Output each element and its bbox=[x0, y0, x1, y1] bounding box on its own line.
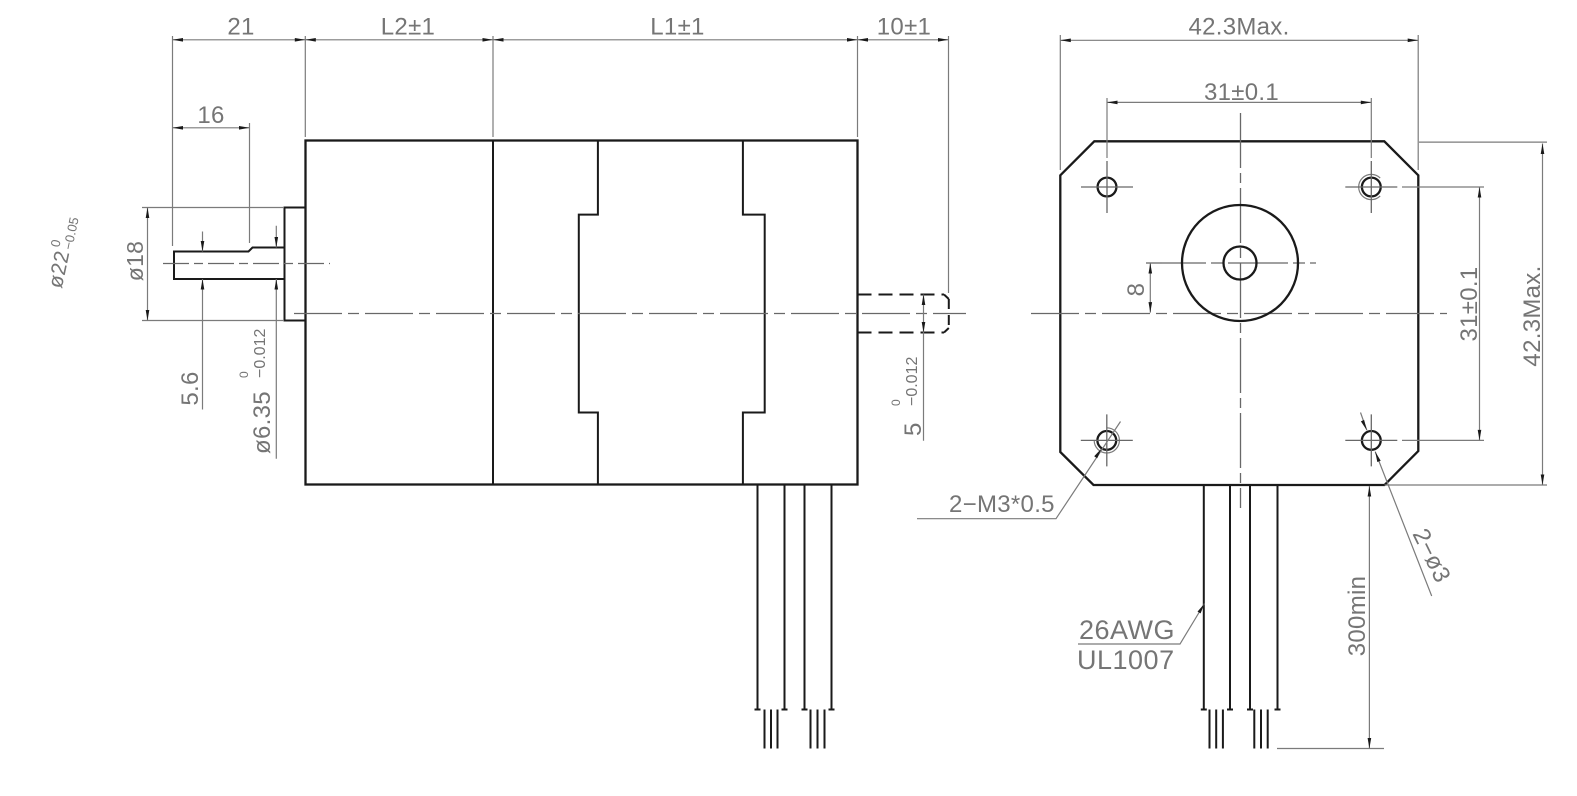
shaft centerline bbox=[163, 263, 330, 265]
svg-text:L1±1: L1±1 bbox=[650, 14, 704, 41]
svg-text:−0.012: −0.012 bbox=[904, 357, 921, 406]
vertical centerline (front view) bbox=[1240, 113, 1242, 508]
front pilot boss bbox=[285, 208, 306, 321]
extension line 300min bottom bbox=[1277, 748, 1384, 750]
shaft circle bbox=[1224, 247, 1257, 280]
dimension Ø18 bbox=[122, 208, 284, 321]
svg-text:2−M3*0.5: 2−M3*0.5 bbox=[949, 491, 1055, 518]
svg-text:16: 16 bbox=[197, 102, 224, 129]
extension lines right 31 bbox=[1402, 187, 1484, 440]
lamination stack right edge bbox=[743, 141, 765, 485]
dimension 16 bbox=[173, 102, 250, 130]
mounting hole bottom-right bbox=[1345, 414, 1397, 466]
lamination stack left edge bbox=[579, 141, 598, 485]
svg-text:21: 21 bbox=[227, 14, 254, 41]
gearbox/motor divider line bbox=[492, 141, 494, 485]
svg-text:42.3Max.: 42.3Max. bbox=[1519, 265, 1546, 366]
extension line shaft tip bbox=[172, 36, 174, 246]
mounting hole top-right (tapped) bbox=[1345, 161, 1397, 213]
svg-text:ø18: ø18 bbox=[122, 241, 148, 282]
leader 26AWG / UL1007 bbox=[1077, 604, 1205, 676]
pilot circle bbox=[1182, 205, 1298, 321]
lead wire 2 (side view) bbox=[802, 485, 835, 749]
svg-text:42.3Max.: 42.3Max. bbox=[1188, 14, 1289, 41]
dimension 31±0.1 right bbox=[1456, 187, 1483, 440]
motor face outline (chamfered square) bbox=[1060, 141, 1418, 485]
dimension 300min bbox=[1344, 486, 1371, 749]
svg-text:0: 0 bbox=[237, 371, 251, 378]
mounting hole bottom-left (tapped) bbox=[1081, 414, 1133, 466]
dimension L2±1 bbox=[305, 14, 493, 42]
dimension Ø6.35 0/-0.012 bbox=[237, 226, 278, 459]
mounting hole top-left bbox=[1081, 161, 1133, 213]
extension lines right 42.3 bbox=[1385, 142, 1548, 485]
dimension 10±1 bbox=[858, 14, 949, 42]
body centerline (side view) bbox=[294, 313, 966, 315]
rear shaft hidden top line bbox=[858, 294, 945, 296]
svg-text:8: 8 bbox=[1123, 283, 1150, 297]
dimension 5.6 bbox=[177, 232, 204, 410]
body centerline (front view) bbox=[1031, 313, 1447, 315]
extension lines top 31 from holes bbox=[1107, 98, 1371, 158]
svg-text:0: 0 bbox=[889, 399, 903, 406]
dimension 8 (shaft offset) bbox=[1123, 263, 1162, 313]
extension line divider bbox=[492, 36, 494, 137]
lead wire 2 (front view) bbox=[1247, 485, 1281, 749]
motor body outline (side view) bbox=[306, 141, 858, 485]
dimension 5 0/-0.012 (rear shaft) bbox=[889, 295, 927, 441]
rear shaft end chamfers bbox=[944, 295, 949, 333]
extension line body front bbox=[304, 36, 306, 137]
svg-text:31±0.1: 31±0.1 bbox=[1456, 266, 1483, 341]
dimension 21 bbox=[173, 14, 306, 42]
extension line rear shaft end bbox=[948, 36, 950, 293]
svg-text:UL1007: UL1007 bbox=[1077, 645, 1175, 675]
dimension Ø22 note (rotated) bbox=[39, 213, 82, 290]
lead wire 1 (side view) bbox=[755, 485, 788, 749]
svg-text:−0.012: −0.012 bbox=[252, 329, 269, 378]
svg-text:10±1: 10±1 bbox=[877, 14, 931, 41]
shaft centerline (front view) bbox=[1146, 262, 1316, 264]
dimension 42.3Max. top bbox=[1060, 14, 1418, 43]
dimension 31±0.1 top bbox=[1107, 79, 1371, 106]
dimension 42.3Max. right bbox=[1519, 144, 1546, 486]
svg-text:31±0.1: 31±0.1 bbox=[1204, 79, 1279, 106]
dimension L1±1 bbox=[493, 14, 858, 42]
svg-text:26AWG: 26AWG bbox=[1079, 615, 1175, 645]
svg-text:5.6: 5.6 bbox=[177, 371, 204, 405]
leader 2-M3*0.5 bbox=[917, 422, 1121, 519]
svg-text:L2±1: L2±1 bbox=[381, 14, 435, 41]
svg-text:300min: 300min bbox=[1344, 576, 1371, 657]
extension lines top 42.3 bbox=[1060, 35, 1418, 170]
extension line flat end bbox=[249, 123, 251, 243]
lead wire 1 (front view) bbox=[1201, 485, 1233, 749]
svg-text:5: 5 bbox=[900, 422, 927, 436]
extension line body rear bbox=[857, 36, 859, 137]
output shaft with flat bbox=[174, 248, 285, 280]
svg-text:ø6.35: ø6.35 bbox=[249, 391, 276, 454]
leader 2-Ø3 bbox=[1361, 413, 1456, 597]
rear shaft hidden bottom line bbox=[858, 332, 945, 334]
